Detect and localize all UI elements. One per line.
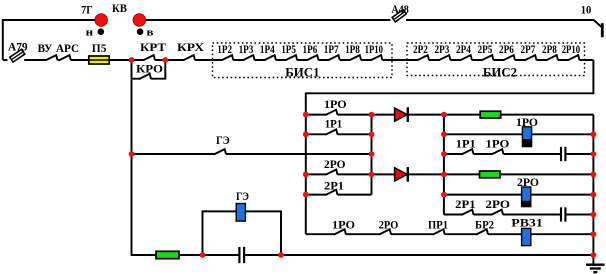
node RR-G bbox=[591, 231, 597, 237]
wire row2 main bbox=[3, 59, 594, 61]
contact 1Р5 bbox=[285, 55, 297, 62]
fuse A48 bbox=[391, 10, 407, 22]
contact 2Р5 bbox=[482, 55, 494, 62]
diode VD2 bbox=[395, 167, 408, 182]
svg-text:2Р1: 2Р1 bbox=[455, 197, 475, 211]
svg-text:2РО: 2РО bbox=[517, 175, 539, 189]
contact KRO (bypass) bbox=[139, 74, 151, 80]
wire right rail to ground bbox=[592, 115, 594, 264]
svg-text:А79: А79 bbox=[8, 40, 28, 54]
terminal dot n bbox=[98, 28, 105, 35]
capacitor C3 (GE) bbox=[239, 247, 245, 263]
contact KRKh bbox=[183, 55, 195, 62]
lamp 7G (KV n) bbox=[95, 14, 108, 27]
svg-text:РВ31: РВ31 bbox=[511, 216, 543, 230]
contact 2RO (bottom row) bbox=[379, 229, 391, 236]
node row2-bus bbox=[129, 57, 135, 63]
svg-text:1РО: 1РО bbox=[324, 97, 347, 111]
svg-text:КРО: КРО bbox=[136, 62, 163, 76]
svg-text:БИС1: БИС1 bbox=[285, 65, 319, 79]
svg-text:1Р3: 1Р3 bbox=[239, 42, 254, 56]
wire row 1R1 left bbox=[306, 133, 372, 135]
relay 2RO coil bbox=[522, 187, 531, 207]
node colR-B bbox=[441, 131, 447, 137]
node rail-1RO bbox=[303, 112, 309, 118]
wire row relay-2RO right bbox=[444, 194, 594, 196]
dashed box BIS1 outline bbox=[213, 43, 393, 78]
svg-text:КРХ: КРХ bbox=[177, 40, 204, 54]
wire row relay-1RO right bbox=[444, 133, 594, 135]
svg-text:2Р1: 2Р1 bbox=[324, 178, 344, 192]
node RR-B bbox=[591, 131, 597, 137]
wire left column bbox=[371, 115, 373, 195]
contact VU bbox=[46, 55, 58, 62]
node colL-A bbox=[369, 112, 375, 118]
connector pin 10 bar bbox=[601, 23, 604, 37]
svg-text:1РО: 1РО bbox=[332, 218, 355, 232]
svg-text:ВУ: ВУ bbox=[38, 41, 53, 55]
svg-text:1РО: 1РО bbox=[486, 137, 510, 151]
contact ARS bbox=[59, 55, 71, 62]
contact 2RO (row F) bbox=[491, 210, 503, 216]
wire right column bbox=[443, 115, 445, 215]
svg-text:2Р8: 2Р8 bbox=[542, 42, 557, 56]
contact 2Р6 bbox=[503, 55, 515, 62]
wire row 2R1 left bbox=[306, 194, 372, 196]
contact 2R1 (row F) bbox=[462, 210, 474, 216]
contact 1Р2 bbox=[221, 55, 233, 62]
contact 1R1 (row C) bbox=[462, 149, 474, 155]
svg-text:1Р5: 1Р5 bbox=[281, 42, 296, 56]
svg-text:в: в bbox=[147, 27, 154, 39]
contact 2Р4 bbox=[460, 55, 472, 62]
node colL-B bbox=[369, 131, 375, 137]
wire row 2RO-diode-resistor bbox=[306, 173, 594, 175]
terminal dot v bbox=[137, 28, 144, 35]
contact PR1 bbox=[433, 229, 445, 236]
wire KRO bypass loop bbox=[132, 60, 166, 79]
svg-text:ГЭ: ГЭ bbox=[216, 133, 230, 147]
node bottom-loop-left bbox=[200, 252, 206, 258]
svg-text:БИС2: БИС2 bbox=[483, 66, 517, 80]
fuse A79 bbox=[7, 49, 24, 62]
svg-text:2РО: 2РО bbox=[324, 157, 346, 171]
svg-text:2Р7: 2Р7 bbox=[521, 42, 536, 56]
contact 1Р3 bbox=[243, 55, 255, 62]
wire row 1R1-1RO-capacitor bbox=[444, 153, 594, 155]
contact BR2 bbox=[476, 229, 488, 236]
node RR-D bbox=[591, 172, 597, 178]
relay 1RO coil bbox=[522, 127, 531, 147]
wire top-right segment with corner to connector 10 bbox=[146, 20, 602, 28]
svg-text:ГЭ: ГЭ bbox=[236, 189, 249, 203]
ground bbox=[586, 265, 605, 273]
wire left bus and bottom wire bbox=[132, 60, 594, 255]
contact KRT bbox=[143, 55, 155, 62]
svg-text:БР2: БР2 bbox=[475, 218, 494, 232]
contact GE bbox=[214, 149, 226, 155]
svg-text:1Р8: 1Р8 bbox=[345, 42, 360, 56]
contact 2Р7 bbox=[525, 55, 537, 62]
fuse P5 bbox=[89, 56, 109, 64]
contact 2Р8 bbox=[546, 55, 558, 62]
lamp KV v bbox=[133, 14, 146, 27]
resistor R1 bbox=[480, 111, 501, 118]
node colL-D bbox=[369, 172, 375, 178]
capacitor C2 bbox=[560, 207, 566, 221]
svg-text:1Р2: 1Р2 bbox=[217, 42, 232, 56]
svg-text:2Р4: 2Р4 bbox=[456, 42, 471, 56]
relay GE coil bbox=[236, 204, 245, 222]
svg-text:ПР1: ПР1 bbox=[428, 218, 448, 232]
contact 2Р3 bbox=[439, 55, 451, 62]
capacitor C1 bbox=[560, 147, 566, 161]
contact 2R1 (row E) bbox=[326, 190, 338, 197]
node row2-KRO bbox=[162, 57, 168, 63]
contact 1Р8 bbox=[349, 55, 361, 62]
wire GE row bbox=[132, 153, 372, 155]
wire row 2R1-2RO-capacitor bbox=[444, 214, 594, 216]
wire GE relay loop bbox=[203, 211, 282, 255]
wire row 1RO-diode-resistor bbox=[306, 114, 594, 116]
contact 1RO (row C) bbox=[492, 149, 504, 155]
contact 1RO (row A) bbox=[326, 110, 338, 117]
node colL-C bbox=[369, 151, 375, 157]
svg-text:2РО: 2РО bbox=[486, 197, 511, 211]
node rail-2RO bbox=[303, 172, 309, 178]
contact 2RO (row D) bbox=[326, 170, 338, 177]
contact 1Р7 bbox=[328, 55, 340, 62]
node RR-F bbox=[591, 212, 597, 218]
node RR-E bbox=[591, 192, 597, 198]
svg-text:1Р1: 1Р1 bbox=[325, 117, 343, 131]
svg-text:1Р10: 1Р10 bbox=[365, 42, 383, 56]
contact 1R1 (row B) bbox=[326, 129, 338, 136]
contact 1Р4 bbox=[264, 55, 276, 62]
svg-text:КРТ: КРТ bbox=[140, 40, 166, 54]
svg-text:2Р10: 2Р10 bbox=[562, 42, 580, 56]
contact 1Р10 bbox=[370, 55, 382, 62]
svg-text:2Р6: 2Р6 bbox=[499, 42, 514, 56]
node bottom-loop-right bbox=[278, 252, 284, 258]
svg-text:2Р3: 2Р3 bbox=[435, 42, 450, 56]
svg-text:КВ: КВ bbox=[112, 1, 127, 15]
svg-text:2Р5: 2Р5 bbox=[478, 42, 493, 56]
wire BIS2 output down and left to rail bbox=[306, 60, 594, 234]
svg-text:1РО: 1РО bbox=[516, 115, 538, 129]
resistor R2 bbox=[480, 171, 501, 178]
svg-text:АРС: АРС bbox=[56, 41, 79, 55]
node bus-GE bbox=[129, 151, 135, 157]
contact 2Р2 bbox=[417, 55, 429, 62]
node RR-C bbox=[591, 151, 597, 157]
diode VD1 bbox=[395, 107, 408, 122]
node colR-A bbox=[441, 112, 447, 118]
contact 1Р6 bbox=[307, 55, 319, 62]
dashed box BIS2 outline bbox=[407, 43, 585, 76]
relay RV31 coil bbox=[522, 228, 531, 245]
svg-text:1Р6: 1Р6 bbox=[303, 42, 318, 56]
svg-text:10: 10 bbox=[581, 2, 592, 16]
wire top-left segment to lamp bbox=[3, 20, 95, 60]
svg-text:2Р2: 2Р2 bbox=[413, 42, 428, 56]
node colR-E bbox=[441, 192, 447, 198]
svg-text:н: н bbox=[86, 27, 94, 39]
contact 1RO (bottom row) bbox=[334, 229, 346, 236]
node bottom-rail bbox=[591, 252, 597, 258]
svg-text:2РО: 2РО bbox=[379, 218, 399, 232]
resistor R3 (bottom) bbox=[156, 251, 179, 258]
wire bottom contact row bbox=[306, 233, 594, 235]
svg-text:1Р1: 1Р1 bbox=[456, 137, 476, 151]
node colR-C bbox=[441, 151, 447, 157]
svg-text:1Р4: 1Р4 bbox=[260, 42, 275, 56]
contact 2Р10 bbox=[568, 55, 580, 62]
node rail-2R1 bbox=[303, 192, 309, 198]
svg-text:1Р7: 1Р7 bbox=[324, 42, 339, 56]
svg-text:А48: А48 bbox=[391, 2, 409, 16]
node colR-D bbox=[441, 172, 447, 178]
svg-text:П5: П5 bbox=[92, 41, 107, 55]
node rail-1R1 bbox=[303, 131, 309, 137]
svg-text:7Г: 7Г bbox=[81, 5, 93, 17]
